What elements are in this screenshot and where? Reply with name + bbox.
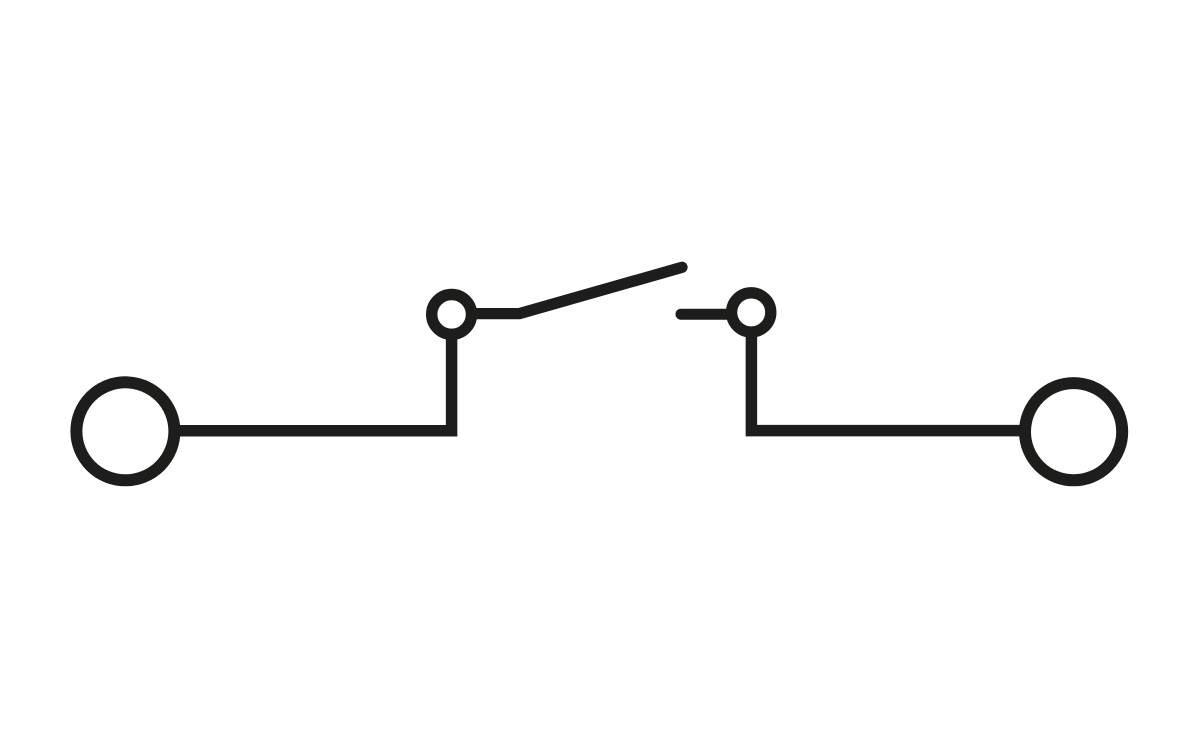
wire (left terminal to switch pivot, with rise to contact) [176,336,452,431]
switch contact circle left (pivot) [432,295,472,335]
wire stub (fixed contact lead) [681,309,727,320]
terminal circle left (wire-entry contact) [76,382,174,480]
wire (right contact down and to right terminal) [751,331,1024,431]
switch contact circle right (fixed contact) [732,293,771,332]
switch blade (open knife-disconnect lever) [474,267,682,313]
terminal circle right (wire-entry contact) [1025,383,1122,480]
